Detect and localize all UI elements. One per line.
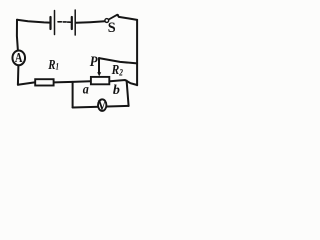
- battery cell 1 positive plate: [54, 11, 56, 35]
- wire wiper to right vertical: [99, 58, 137, 63]
- battery cell 2 negative plate: [71, 17, 73, 29]
- wiper P arrowhead: [97, 72, 101, 76]
- svg-text:S: S: [108, 20, 116, 36]
- battery cell 1 negative plate: [49, 17, 51, 29]
- wire switch to top-right corner: [119, 17, 137, 20]
- ammeter A: [12, 50, 25, 65]
- wire right vertical: [136, 20, 138, 85]
- wiper P vertical wire: [98, 58, 100, 73]
- svg-text:R2: R2: [111, 62, 123, 78]
- switch S pivot circle: [105, 19, 109, 23]
- wire junction a down to voltmeter loop: [72, 82, 74, 108]
- wire voltmeter loop right vertical up to node b: [127, 81, 129, 106]
- wire bottom-left horizontal to R1: [18, 82, 35, 84]
- wire voltmeter bottom horizontal: [73, 106, 129, 108]
- potentiometer R2 body: [91, 77, 109, 84]
- svg-text:A: A: [15, 49, 23, 65]
- wire battery to switch: [76, 21, 105, 23]
- switch S contact dot: [117, 14, 120, 17]
- battery dashes: [58, 21, 61, 23]
- svg-text:V: V: [98, 97, 107, 114]
- battery cell 2 positive plate: [74, 10, 76, 35]
- svg-text:b: b: [113, 83, 120, 98]
- resistor R1: [35, 79, 53, 85]
- voltmeter V: [98, 99, 106, 111]
- wire top horizontal (corner to battery): [17, 20, 50, 23]
- svg-text:a: a: [83, 82, 90, 97]
- wire node b to right vertical: [110, 80, 137, 85]
- svg-text:P: P: [90, 54, 98, 70]
- wire R1 to pot terminal a: [54, 81, 90, 82]
- switch S blade: [109, 15, 118, 20]
- svg-text:R1: R1: [47, 57, 59, 73]
- wire ammeter to bottom-left corner: [17, 65, 20, 84]
- wire left vertical (corner to ammeter): [17, 20, 18, 51]
